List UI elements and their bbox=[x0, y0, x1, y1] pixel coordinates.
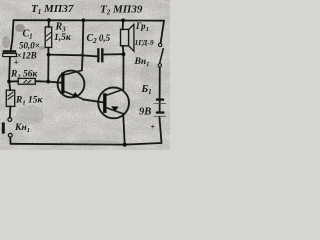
svg-text:×12В: ×12В bbox=[17, 51, 37, 61]
wire R3 bottom lead bbox=[47, 48, 49, 55]
svg-text:+: + bbox=[14, 58, 19, 68]
transistor T2 emitter line with arrow bbox=[107, 108, 124, 114]
svg-text:Т1 МП37: Т1 МП37 bbox=[31, 3, 74, 16]
battery B1 plate thin 2 bbox=[154, 116, 166, 117]
wire left rail node to R1 bbox=[9, 82, 10, 91]
node R3 base wire junction bbox=[46, 80, 50, 84]
wire R3 top lead bbox=[48, 20, 50, 27]
transistor T2 collector line bbox=[107, 89, 124, 95]
capacitor C1 plate solid bbox=[3, 50, 16, 53]
node C1 R2 junction bbox=[7, 80, 11, 84]
svg-text:+: + bbox=[151, 123, 156, 132]
transistor T1 collector line bbox=[64, 70, 82, 75]
battery B1 plate thick 1 bbox=[156, 98, 164, 100]
wire left rail button to corner bbox=[9, 137, 11, 144]
pushbutton Kn1 bottom contact bbox=[8, 133, 12, 137]
wire switch to battery bbox=[159, 67, 161, 98]
scan smudge marks bbox=[2, 24, 160, 146]
svg-text:Т2 МП39: Т2 МП39 bbox=[100, 4, 143, 17]
resistor R2 body bbox=[18, 78, 35, 84]
switch Vk1 top contact bbox=[158, 43, 161, 46]
pushbutton Kn1 actuator bar bbox=[2, 122, 5, 133]
svg-text:1ГД-9: 1ГД-9 bbox=[135, 38, 154, 47]
transistor T1 circle bbox=[58, 71, 85, 98]
node speaker top rail bbox=[121, 19, 125, 23]
node T1 collector top rail bbox=[82, 18, 86, 22]
node R3 C2 junction bbox=[47, 53, 51, 57]
transistor T1 base bar bbox=[61, 73, 64, 94]
wire R2 right lead to T1 base bbox=[35, 81, 61, 83]
wire top rail bbox=[14, 19, 165, 21]
transistor T2 circle bbox=[98, 88, 129, 119]
wire T2 emitter to bottom rail bbox=[123, 114, 125, 145]
battery B1 plate thin 1 bbox=[154, 103, 166, 104]
svg-text:R1 15к: R1 15к bbox=[15, 96, 43, 107]
capacitor C1 plate hollow bbox=[3, 53, 17, 56]
wire speaker top lead bbox=[122, 20, 125, 29]
transistor T2 base bar bbox=[103, 93, 106, 113]
paper background bbox=[0, 0, 170, 150]
wire right rail top to switch bbox=[161, 21, 164, 43]
resistor R2 hatch bbox=[24, 80, 32, 83]
resistor R1 body bbox=[6, 90, 14, 106]
svg-text:R2 56к: R2 56к bbox=[10, 69, 38, 80]
wire R3 node down to base wire bbox=[47, 55, 49, 82]
wire left rail R1 to button bbox=[9, 106, 12, 117]
wire battery to corner bbox=[159, 117, 161, 143]
wire bottom rail bbox=[11, 143, 162, 145]
svg-text:1,5к: 1,5к bbox=[54, 33, 72, 43]
wire T1 collector to top rail bbox=[82, 20, 84, 70]
wire node to C2 left plate bbox=[49, 55, 98, 57]
wire left rail C1 to R2 node bbox=[8, 57, 11, 82]
wire R2 left lead bbox=[9, 80, 18, 82]
pushbutton Kn1 top contact bbox=[8, 118, 12, 122]
node C2 speaker junction bbox=[122, 52, 126, 56]
resistor R3 body bbox=[45, 27, 52, 48]
resistor R3 hatch bbox=[46, 32, 51, 41]
capacitor C2 plates bbox=[97, 48, 99, 62]
wire left rail upper (to C1) bbox=[11, 20, 14, 50]
loudspeaker Gr1 rectangle bbox=[121, 29, 129, 45]
switch Vk1 bottom contact bbox=[158, 64, 161, 67]
svg-text:9В: 9В bbox=[139, 107, 151, 118]
wire T1 emitter to T2 base bbox=[82, 99, 103, 102]
resistor R1 hatch bbox=[8, 92, 14, 100]
wire battery mid bbox=[159, 101, 161, 112]
node T2 emitter bottom rail bbox=[123, 143, 127, 147]
loudspeaker Gr1 horn bbox=[129, 24, 134, 51]
wire speaker bottom to C2 node to T2 collector bbox=[122, 46, 125, 89]
transistor T1 emitter line with arrow bbox=[64, 91, 82, 99]
svg-text:50,0×: 50,0× bbox=[19, 41, 40, 51]
switch Vk1 lever bbox=[160, 48, 164, 64]
battery B1 plate thick 2 bbox=[156, 111, 165, 113]
wire C2 right lead bbox=[104, 53, 124, 55]
node R3 top rail bbox=[47, 18, 51, 22]
